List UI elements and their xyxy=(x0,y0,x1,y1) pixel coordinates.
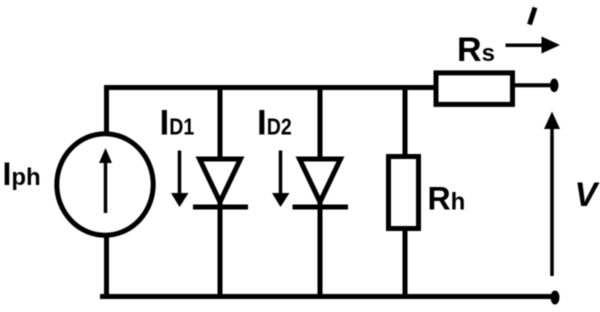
svg-text:V: V xyxy=(575,176,600,214)
